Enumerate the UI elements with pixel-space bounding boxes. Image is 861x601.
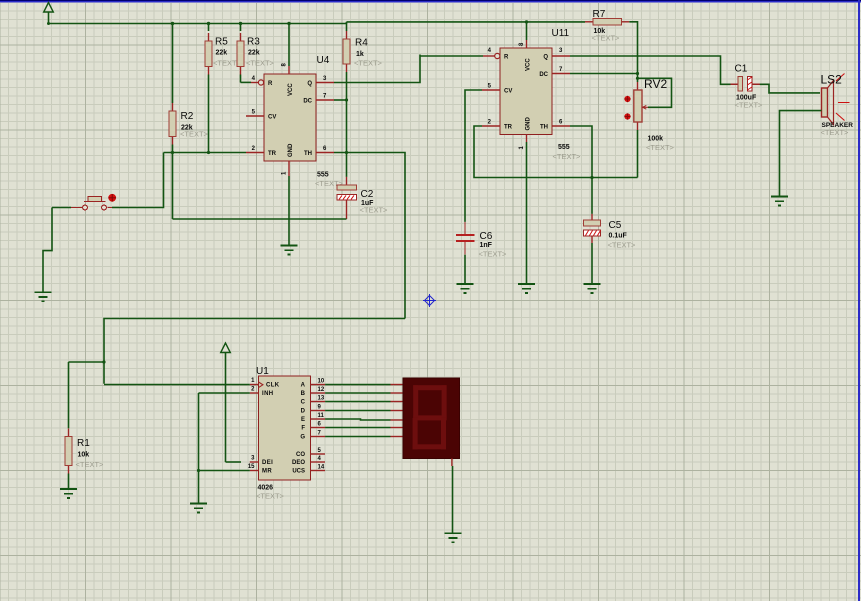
- svg-text:555: 555: [317, 172, 329, 179]
- wire rail to U11 VCC: [526, 22, 528, 40]
- switch actuator (red dot): [108, 194, 116, 202]
- svg-text:<TEXT>: <TEXT>: [76, 460, 105, 469]
- 7-segment display: [403, 378, 460, 458]
- wire U4 Q up: [334, 55, 420, 83]
- svg-text:<TEXT>: <TEXT>: [479, 250, 508, 259]
- wire U1 F to display: [325, 427, 390, 429]
- wire U1 A to display: [325, 384, 390, 386]
- ground U11: [518, 284, 535, 293]
- svg-text:CV: CV: [268, 114, 276, 120]
- U4 pin 2 TR stub: [246, 152, 264, 154]
- RV2 terminal dots: [624, 96, 630, 102]
- svg-text:<TEXT>: <TEXT>: [592, 34, 621, 43]
- wire speaker to ground: [780, 111, 822, 196]
- U11 pin 8 VCC stub: [526, 40, 528, 48]
- junction R5/TR: [207, 151, 210, 154]
- wire INH row: [199, 392, 250, 394]
- junction R2/TR: [171, 151, 174, 154]
- U4 pin 8 VCC stub: [288, 66, 290, 74]
- op-amp U4 555 timer: [264, 74, 316, 161]
- svg-text:B: B: [301, 391, 306, 397]
- U11 pin 7 DC stub: [552, 73, 570, 75]
- svg-text:13: 13: [318, 395, 325, 401]
- ground R1: [60, 489, 77, 498]
- svg-text:UCS: UCS: [292, 469, 305, 475]
- wire to DEI stub: [226, 461, 242, 463]
- svg-text:15: 15: [248, 464, 255, 470]
- sheet border top: [0, 0, 861, 3]
- U4 pin 3 Q stub: [316, 82, 334, 84]
- wire to R1 top: [68, 362, 70, 428]
- svg-text:VCC: VCC: [288, 83, 294, 96]
- wire U11 Q to C1: [570, 56, 731, 84]
- svg-text:12: 12: [318, 387, 325, 393]
- wire display to ground: [452, 466, 454, 533]
- U4 pin 4 R (reset bubble): [251, 82, 258, 84]
- svg-text:10k: 10k: [78, 452, 90, 459]
- U1 pin 14 UCS: [310, 470, 325, 472]
- svg-text:TR: TR: [268, 151, 277, 157]
- svg-text:TH: TH: [540, 124, 548, 130]
- speaker LS2: [822, 74, 850, 125]
- svg-text:MR: MR: [262, 469, 272, 475]
- wire MR row: [199, 470, 250, 472]
- wire C5 to ground: [591, 243, 593, 284]
- junction rail U4 VCC: [287, 22, 290, 25]
- svg-text:DEO: DEO: [292, 460, 305, 466]
- svg-text:4026: 4026: [258, 485, 274, 492]
- wire clock net long run: [104, 319, 405, 384]
- origin marker: [423, 294, 436, 307]
- svg-text:555: 555: [558, 144, 570, 151]
- svg-text:DC: DC: [539, 72, 548, 78]
- 7-segment digit segments: [413, 385, 447, 449]
- U4 pin 1 GND stub: [288, 161, 290, 176]
- U1 pin 1 CLK: [250, 384, 258, 386]
- svg-text:R3: R3: [247, 37, 260, 48]
- wire U1 C to display: [325, 401, 390, 403]
- junction rail R3: [239, 22, 242, 25]
- wire U4 Q to U11 R: [420, 55, 484, 57]
- svg-text:GND: GND: [288, 143, 294, 157]
- U11 pin 1 GND stub: [526, 134, 528, 142]
- svg-text:INH: INH: [262, 391, 274, 397]
- svg-text:Q: Q: [543, 54, 548, 60]
- svg-text:<TEXT>: <TEXT>: [821, 128, 850, 137]
- capacitor C6 1nF: [456, 222, 474, 255]
- svg-text:R7: R7: [593, 9, 606, 20]
- junction DC/RV2: [636, 72, 639, 75]
- wire U11 TR loop: [474, 126, 638, 178]
- svg-text:R5: R5: [215, 37, 228, 48]
- resistor R1: [65, 429, 72, 474]
- U1 pin 7 G: [310, 436, 325, 438]
- svg-text:F: F: [301, 426, 305, 432]
- svg-text:C2: C2: [361, 189, 374, 200]
- svg-text:<TEXT>: <TEXT>: [246, 59, 275, 68]
- wire power arrow stem: [48, 12, 50, 24]
- svg-text:U4: U4: [317, 55, 330, 66]
- wire R7 to RV2: [629, 22, 637, 82]
- svg-text:22k: 22k: [248, 50, 260, 57]
- svg-text:R4: R4: [355, 38, 368, 49]
- wire U1 G to display: [325, 436, 390, 438]
- svg-text:DEI: DEI: [262, 460, 273, 466]
- wire rail to R3: [240, 24, 242, 32]
- wire R3 to U4 reset pin: [241, 81, 252, 83]
- wire clock to U1 CLK: [104, 384, 250, 386]
- ground U1: [190, 504, 207, 513]
- svg-text:C5: C5: [609, 220, 622, 231]
- U11 pin 2 TR stub: [482, 125, 500, 127]
- 7-segment bottom pin: [451, 458, 453, 466]
- svg-text:C6: C6: [480, 231, 493, 242]
- svg-text:<TEXT>: <TEXT>: [608, 241, 637, 250]
- svg-text:0.1uF: 0.1uF: [609, 232, 628, 239]
- ground U4: [280, 246, 297, 255]
- svg-text:<TEXT>: <TEXT>: [553, 152, 582, 161]
- svg-text:DC: DC: [303, 98, 312, 104]
- svg-text:TH: TH: [304, 151, 312, 157]
- wire RV2 bottom to loop: [637, 130, 639, 178]
- svg-text:R: R: [268, 81, 273, 87]
- svg-text:U1: U1: [256, 366, 269, 377]
- wire U1 B to display: [325, 392, 390, 394]
- U1 pin 15 MR: [250, 470, 258, 472]
- svg-text:U11: U11: [552, 28, 570, 39]
- wire U4 GND down: [288, 176, 290, 245]
- U4 pin 6 TH stub: [316, 152, 334, 154]
- svg-text:E: E: [301, 417, 305, 423]
- svg-text:A: A: [301, 383, 306, 389]
- wire VCC rail right: [347, 21, 586, 23]
- wire TR row: [164, 152, 247, 154]
- ground C6: [456, 284, 473, 293]
- junction DC/R4: [345, 98, 348, 101]
- svg-text:<TEXT>: <TEXT>: [735, 101, 764, 110]
- wire rail to R5: [208, 24, 210, 32]
- U1 pin 2 INH: [250, 392, 258, 394]
- junction wiper: [636, 77, 639, 80]
- ground C5: [583, 284, 600, 293]
- wire power to DEI: [225, 352, 227, 462]
- U4 pin 5 CV stub: [246, 115, 264, 117]
- svg-text:<TEXT>: <TEXT>: [180, 130, 209, 139]
- wire TR net down: [172, 153, 174, 220]
- power vcc arrow (U1): [221, 343, 231, 353]
- U1 pin 5 CO: [310, 453, 325, 455]
- U11 pin 6 TH stub: [552, 125, 570, 127]
- sheet border right: [858, 0, 860, 601]
- wire U11 TH to C5: [570, 126, 592, 214]
- svg-text:10: 10: [318, 378, 325, 384]
- wire U1 D to display: [325, 410, 390, 412]
- capacitor C1 100uF: [731, 77, 760, 92]
- U1 pin 6 F: [310, 427, 325, 429]
- ground speaker: [771, 197, 788, 206]
- U11 pin 3 Q stub: [552, 55, 570, 57]
- wire R4 to C2: [346, 72, 348, 177]
- resistor R4: [343, 31, 350, 72]
- svg-text:<TEXT>: <TEXT>: [354, 59, 383, 68]
- U1 pin 13 C: [310, 401, 325, 403]
- wire switch to ground: [43, 208, 52, 293]
- svg-text:LS2: LS2: [821, 73, 843, 87]
- wire R1 to ground: [68, 474, 70, 489]
- wire branch to R1: [69, 361, 105, 363]
- potentiometer RV2 100k: [634, 82, 648, 130]
- junction TH/C2: [345, 151, 348, 154]
- wire RV2 wiper loop: [638, 78, 672, 107]
- U1 pin 4 DEO: [310, 461, 325, 463]
- svg-text:11: 11: [318, 413, 325, 419]
- svg-text:C: C: [301, 400, 306, 406]
- svg-text:CV: CV: [504, 88, 512, 94]
- ground switch: [34, 292, 51, 301]
- ground display: [444, 533, 461, 542]
- U1 pin 11 E: [310, 418, 325, 420]
- U1 pin 3 DEI: [250, 461, 258, 463]
- svg-text:GND: GND: [526, 117, 532, 131]
- svg-text:R: R: [504, 54, 509, 60]
- wire U4 DC to R4 net: [334, 99, 347, 101]
- svg-text:D: D: [301, 409, 306, 415]
- counter U1 4026: [258, 376, 310, 480]
- svg-text:VCC: VCC: [526, 58, 532, 71]
- U1 CLK chevron: [258, 382, 263, 388]
- resistor R2: [169, 103, 176, 145]
- wire U11 CV to C6: [465, 90, 482, 222]
- push-button switch: [71, 196, 114, 210]
- svg-text:1k: 1k: [356, 51, 364, 58]
- junction rail start: [47, 22, 50, 25]
- svg-text:14: 14: [318, 464, 325, 470]
- svg-text:<TEXT>: <TEXT>: [646, 143, 675, 152]
- wire U1 E to display: [325, 419, 390, 420]
- svg-text:100k: 100k: [648, 136, 664, 143]
- wire R3 down: [240, 75, 242, 83]
- wire U11 DC to RV2 net: [570, 73, 638, 75]
- junction R1 branch: [102, 360, 105, 363]
- svg-text:R2: R2: [181, 111, 194, 122]
- wire C2 bottom to TR net: [173, 218, 347, 220]
- wire VCC rail jog: [346, 22, 348, 24]
- svg-text:CO: CO: [296, 452, 305, 458]
- junction rail R5: [207, 22, 210, 25]
- svg-text:<TEXT>: <TEXT>: [360, 206, 389, 215]
- capacitor C2 1uF: [346, 177, 348, 185]
- wire VCC rail left: [49, 23, 347, 25]
- wire C6 to ground: [464, 255, 466, 284]
- resistor R3: [237, 33, 244, 75]
- wire rail to U4 VCC: [288, 24, 290, 67]
- resistor R7 10k (horizontal): [585, 18, 629, 25]
- U4 pin 7 DC stub: [316, 99, 334, 101]
- junction rail U11 VCC: [525, 20, 528, 23]
- wire rail to R4: [346, 22, 348, 31]
- wire U11 GND down: [526, 142, 528, 284]
- svg-text:R1: R1: [77, 438, 90, 449]
- svg-text:G: G: [300, 435, 305, 441]
- U1 pin 10 A: [310, 384, 325, 386]
- U1 pin 12 B: [310, 392, 325, 394]
- svg-text:C1: C1: [735, 64, 748, 75]
- svg-text:22k: 22k: [216, 50, 228, 57]
- svg-text:Q: Q: [307, 81, 312, 87]
- capacitor C5 0.1uF: [591, 214, 593, 220]
- junction rail R2: [171, 22, 174, 25]
- resistor R5: [205, 33, 212, 75]
- U11 pin 4 R (reset bubble): [483, 55, 495, 57]
- svg-text:TR: TR: [504, 124, 513, 130]
- U11 pin 5 CV stub: [482, 89, 500, 91]
- wire INH/MR to ground: [198, 393, 200, 503]
- junction MR: [197, 469, 200, 472]
- wire rail to R2: [172, 24, 174, 104]
- svg-text:1nF: 1nF: [480, 242, 493, 249]
- wire switch to TR net: [112, 153, 164, 208]
- power vcc arrow (top-left): [44, 3, 54, 13]
- wire R2 to TR net: [172, 145, 174, 153]
- wire R5 to TR net: [208, 75, 210, 153]
- wire U4 TH down to clock net: [334, 153, 405, 319]
- wire to switch left: [52, 207, 71, 209]
- svg-text:<TEXT>: <TEXT>: [256, 492, 285, 501]
- op-amp U11 555 timer: [500, 48, 552, 134]
- U1 pin 9 D: [310, 410, 325, 412]
- wire C1 to speaker: [760, 84, 820, 93]
- junction TH loop: [590, 176, 593, 179]
- svg-text:CLK: CLK: [266, 383, 280, 389]
